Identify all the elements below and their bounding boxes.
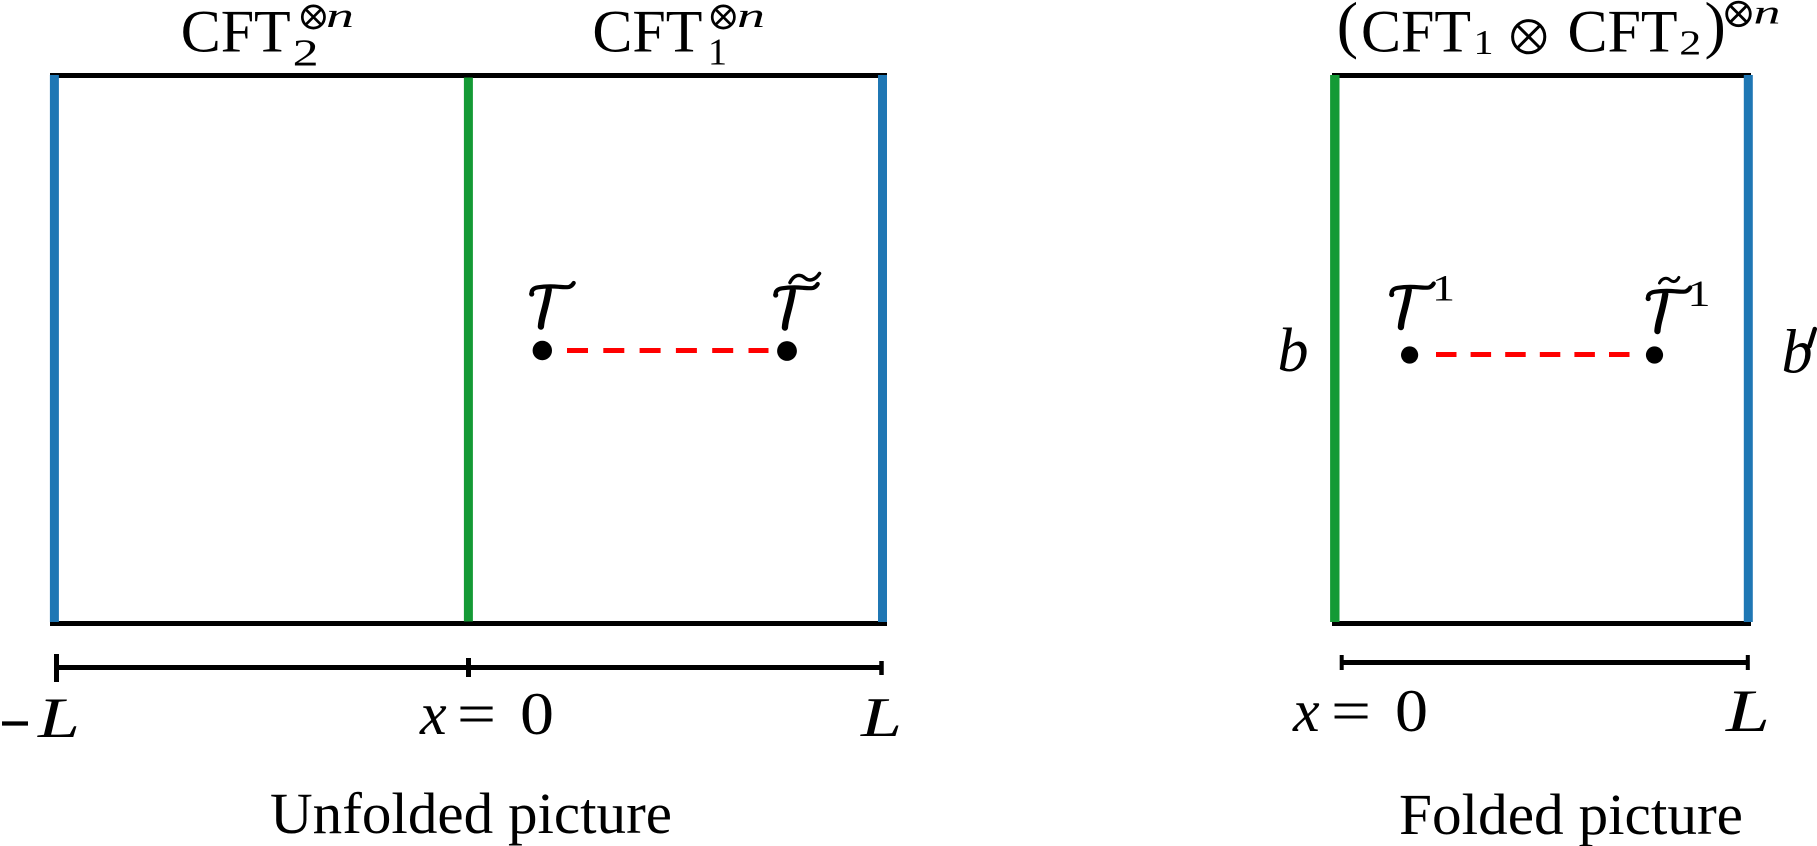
svg-text:2: 2	[293, 33, 319, 75]
svg-text:): )	[1705, 0, 1726, 60]
twist operator T-tilde (calligraphic)	[773, 284, 818, 328]
svg-text:b: b	[1782, 319, 1813, 387]
twist operator T^1	[1389, 284, 1434, 328]
svg-text:L: L	[1725, 678, 1770, 744]
svg-text:L: L	[37, 687, 80, 750]
svg-text:1: 1	[1474, 23, 1494, 62]
green interface x=0	[464, 78, 473, 622]
twist operator T (calligraphic)	[529, 283, 574, 327]
top border	[1332, 73, 1751, 78]
svg-text:=: =	[1331, 678, 1371, 744]
svg-text:Unfolded picture: Unfolded picture	[270, 781, 672, 846]
svg-text:CFT: CFT	[181, 0, 291, 65]
svg-text:0: 0	[520, 681, 554, 747]
red dashed line	[567, 348, 769, 353]
green boundary b	[1330, 75, 1339, 622]
red dashed line (folded)	[1436, 352, 1630, 357]
svg-text:2: 2	[1679, 24, 1701, 63]
dot T^1	[1401, 346, 1418, 363]
ruler mid tick	[466, 658, 471, 677]
ruler line	[54, 665, 884, 670]
ruler left tick	[54, 654, 59, 682]
svg-text:n: n	[326, 0, 354, 35]
svg-text:1: 1	[1688, 274, 1711, 315]
twist operator T-tilde^1	[1646, 288, 1691, 332]
label -L	[2, 721, 28, 725]
svg-text:0: 0	[1395, 678, 1428, 744]
svg-text:1: 1	[1432, 269, 1455, 310]
ruler line (folded)	[1342, 660, 1748, 665]
svg-text:L: L	[860, 687, 902, 749]
svg-text:n: n	[1754, 0, 1781, 32]
svg-text:1: 1	[708, 32, 727, 74]
dot T	[533, 341, 552, 360]
bottom border	[1332, 621, 1751, 626]
svg-text:CFT: CFT	[1361, 0, 1471, 65]
ruler right tick	[879, 661, 884, 675]
svg-text:CFT: CFT	[1568, 0, 1678, 65]
svg-text:x: x	[1292, 678, 1320, 744]
svg-text:Folded picture: Folded picture	[1399, 782, 1743, 846]
ruler right tick (folded)	[1746, 655, 1750, 670]
ruler left tick (folded)	[1340, 655, 1344, 670]
svg-text:(: (	[1337, 0, 1358, 60]
bottom border	[50, 621, 887, 626]
blue boundary b'	[1744, 75, 1753, 622]
tilde accent	[790, 274, 820, 283]
svg-text:n: n	[737, 0, 765, 35]
svg-text:x: x	[419, 681, 447, 747]
top border	[50, 73, 887, 78]
svg-text:=: =	[457, 681, 496, 747]
right blue boundary	[878, 75, 887, 622]
dot T-tilde	[777, 341, 797, 361]
dot T-tilde^1	[1646, 346, 1663, 363]
svg-text:CFT: CFT	[592, 0, 702, 65]
svg-text:b: b	[1278, 317, 1309, 385]
left blue boundary	[50, 75, 59, 622]
